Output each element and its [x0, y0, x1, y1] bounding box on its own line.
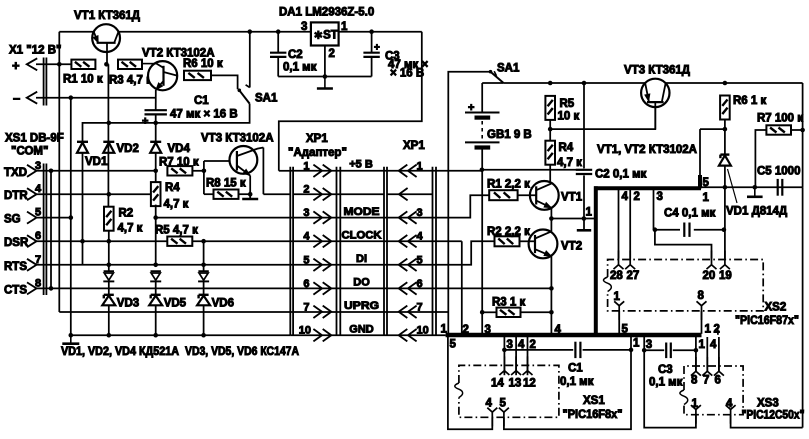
connector X1 label: [9, 45, 61, 57]
svg-text:4: 4: [303, 231, 310, 243]
wire RTS link up: [82, 241, 84, 265]
wire gnd bottom rail: [71, 334, 290, 336]
wire R3 right: [521, 310, 554, 315]
svg-text:C3: C3: [658, 364, 673, 376]
svg-text:20: 20: [703, 270, 716, 282]
node VD rail C1: [153, 121, 158, 126]
XP1 right pin 4: [399, 231, 424, 248]
wire VD6 column bottom: [203, 305, 205, 335]
X1 plus terminal: [12, 58, 71, 73]
DB9 pin 4 DTR: [4, 183, 42, 202]
XS1 pin 13: [509, 356, 522, 389]
node VD rail VD2: [107, 121, 112, 126]
svg-text:3: 3: [301, 21, 307, 33]
svg-text:XS3: XS3: [757, 398, 779, 410]
svg-text:6: 6: [715, 375, 721, 387]
svg-text:8: 8: [691, 375, 698, 387]
wire +12V top rail: [59, 31, 311, 33]
svg-text:GB1 9 В: GB1 9 В: [487, 129, 532, 141]
svg-text:1: 1: [586, 207, 593, 219]
node R5 VD6: [201, 239, 206, 244]
svg-text:R7 10 к: R7 10 к: [159, 157, 199, 169]
wire VD5 column bottom: [155, 305, 157, 335]
ground DA1: [317, 77, 333, 89]
wire row4 to bus2: [436, 241, 469, 336]
svg-text:4,7 к: 4,7 к: [557, 157, 582, 169]
svg-text:47 мк × 16 В: 47 мк × 16 В: [170, 109, 238, 121]
svg-text:R6 1 к: R6 1 к: [733, 95, 766, 107]
XP1 right pin 6: [399, 278, 423, 295]
svg-text:3: 3: [657, 191, 663, 203]
svg-text:VT1 КТ361Д: VT1 КТ361Д: [74, 10, 140, 22]
svg-text:С2 0,1 мк: С2 0,1 мк: [595, 169, 647, 181]
svg-text:28: 28: [610, 270, 623, 282]
wire SA1 drop from rail: [246, 32, 250, 88]
svg-text:7: 7: [417, 301, 423, 313]
svg-text:27: 27: [627, 270, 640, 282]
svg-text:–: –: [13, 91, 20, 106]
wire pin27 from bus: [630, 190, 640, 259]
XS3 pin 8: [691, 357, 701, 387]
transistor VT2: [142, 61, 177, 110]
svg-text:RTS: RTS: [4, 261, 27, 273]
wire +12V rail right of DA1: [339, 31, 422, 33]
svg-text:7: 7: [303, 301, 309, 313]
node top rail C3 tap: [369, 29, 374, 34]
resistor R3 right: [492, 297, 525, 318]
wire R3 to VT2 base: [142, 63, 150, 65]
svg-text:R7 100 к: R7 100 к: [757, 113, 803, 125]
bus upper thick: [594, 186, 701, 190]
wire XS1 frame right: [504, 337, 631, 430]
svg-text:XP1: XP1: [403, 140, 425, 152]
node RTS VD5: [153, 263, 158, 268]
XS1 DB9 bracket: [44, 164, 47, 296]
svg-text:VD1: VD1: [85, 156, 108, 168]
svg-text:R8 15 к: R8 15 к: [206, 178, 246, 190]
wire VD2 column: [107, 64, 109, 206]
wire C1 to VD rail: [155, 115, 157, 142]
node RTS VD6: [201, 263, 206, 268]
capacitor C1 left: [142, 95, 238, 128]
svg-text:× 16 В: × 16 В: [390, 68, 424, 80]
wire XP1 row1 span: [279, 170, 436, 172]
wire R7 right: [791, 128, 805, 133]
battery GB1: [465, 83, 503, 170]
svg-text:5: 5: [417, 254, 423, 266]
svg-text:R3 1 к: R3 1 к: [492, 297, 525, 309]
svg-text:4: 4: [417, 231, 424, 243]
XS2 pin 27: [625, 251, 639, 283]
wire SG row: [37, 217, 71, 219]
XP1 left socket lines: [337, 167, 341, 336]
wire R4 to SG seg: [155, 205, 157, 265]
svg-text:X1 "12 В": X1 "12 В": [9, 45, 61, 57]
capacitor C2 right: [576, 81, 647, 229]
wire R4 to VT1 collector: [550, 165, 551, 184]
wire pin20 path: [655, 230, 712, 259]
node VD6 gnd rail: [201, 333, 206, 338]
XP1 right pin 1: [399, 160, 423, 177]
svg-text:0,1 мк: 0,1 мк: [283, 62, 317, 74]
svg-text:+: +: [142, 116, 148, 128]
wire C4 link: [653, 227, 727, 232]
svg-text:4: 4: [622, 191, 629, 203]
wire DSR to XP1: [192, 240, 436, 242]
svg-text:R4: R4: [165, 182, 180, 194]
switch SA1 left: [238, 89, 278, 105]
svg-text:4,7 к: 4,7 к: [164, 199, 189, 211]
wire VD5 column mid: [155, 282, 157, 295]
node top rail C2 tap: [276, 29, 281, 34]
resistor R7 left: [159, 157, 199, 176]
svg-text:XS1: XS1: [583, 395, 605, 407]
XP1 right pin 5: [399, 254, 423, 271]
svg-text:SA1: SA1: [255, 93, 278, 105]
zener VD3: [102, 295, 139, 310]
XP1 left pin 2: [303, 184, 331, 201]
socket XS2 labels: [735, 302, 799, 328]
capacitor C2 reg: [270, 32, 317, 77]
svg-text:C1: C1: [568, 363, 583, 375]
ground VT3 left: [242, 191, 258, 199]
XP1 right pin 3: [399, 207, 423, 224]
node line1 gnd: [753, 185, 758, 190]
wire emitter node to bus: [551, 207, 595, 221]
capacitor C1 pic: [502, 342, 633, 388]
svg-text:5: 5: [450, 339, 457, 351]
svg-text:1: 1: [699, 339, 706, 351]
wire VD6 column top: [203, 241, 205, 271]
wire row1 to battery: [436, 168, 484, 173]
resistor R6 right: [720, 81, 766, 120]
wire battery to R3 node: [481, 170, 483, 334]
node VD2 DTR: [107, 192, 112, 197]
wire XS3 frame left: [644, 337, 696, 428]
node +12 spine plus row: [57, 62, 62, 67]
wire SG seg to XP1: [156, 217, 436, 219]
wire gnd spine: [70, 98, 72, 336]
svg-text:SG: SG: [4, 214, 21, 226]
svg-text:10 к: 10 к: [558, 111, 580, 123]
XP1 left pin 10: [299, 325, 332, 342]
wire XS1 pin12: [528, 337, 536, 376]
svg-text:13: 13: [509, 378, 522, 390]
svg-text:"PIC12C50x": "PIC12C50x": [742, 410, 805, 422]
XS1 pin 14: [491, 356, 509, 389]
svg-text:+: +: [374, 43, 380, 54]
capacitor C3 reg: [363, 32, 428, 80]
wire DA1 ground rail: [278, 76, 371, 78]
socket XS1 labels: [563, 395, 623, 421]
ground C5 left: [747, 187, 763, 197]
XS2 pin 28: [610, 251, 624, 283]
XP1 left plug lines: [290, 167, 293, 335]
svg-text:VD4: VD4: [168, 143, 191, 155]
label XS3 wire3: [646, 339, 652, 351]
svg-text:6: 6: [303, 278, 309, 290]
node SG gnd spine: [69, 215, 74, 220]
clamp diode upper VD5: [150, 271, 161, 281]
DB9 pin 5 SG: [4, 207, 41, 226]
XS2 pin 19: [719, 251, 732, 283]
svg-text:1: 1: [633, 338, 640, 350]
node RTS VD3: [107, 263, 112, 268]
node R4 SG: [153, 215, 158, 220]
wire DTR row: [37, 193, 152, 195]
svg-text:7: 7: [703, 375, 709, 387]
XP1 right socket lines: [433, 167, 437, 336]
node R2 DSR: [107, 239, 112, 244]
wire R8 to VT3 emitter: [239, 192, 253, 197]
node TXD VD4: [153, 169, 158, 174]
wire DSR row: [37, 240, 168, 242]
clamp diode upper VD6: [198, 271, 209, 281]
wire R7 left: [755, 130, 766, 187]
svg-text:"PIC16F8x": "PIC16F8x": [563, 409, 623, 421]
svg-text:R6 10 к: R6 10 к: [183, 58, 223, 70]
label bus wire3: [485, 324, 491, 336]
XS3 pin 6: [714, 357, 724, 387]
XS1 pin 12: [523, 356, 536, 389]
svg-text:+5 В: +5 В: [349, 159, 373, 171]
wire +5V feed to XP1: [279, 32, 422, 171]
wire VD6 column mid: [203, 282, 205, 295]
wire XP1 row3 span: [290, 217, 436, 219]
svg-text:VT2: VT2: [561, 241, 582, 253]
node VT1 VT2 junction: [549, 216, 554, 221]
switch SA1 right: [489, 63, 520, 83]
wire right rail down: [802, 83, 804, 187]
svg-text:DA1 LM2936Z-5.0: DA1 LM2936Z-5.0: [279, 7, 374, 19]
socket XS1 outline: [455, 365, 559, 417]
XP1 left pin 7: [303, 301, 331, 318]
DB9 pin 7 RTS: [4, 254, 41, 273]
XP1 left pin 3: [303, 207, 331, 224]
XP1 right pin2 stub: [387, 188, 433, 200]
resistor R4 right: [545, 141, 582, 169]
svg-text:6: 6: [417, 278, 423, 290]
svg-text:"PIC16F87x": "PIC16F87x": [735, 315, 799, 327]
svg-text:VT1: VT1: [561, 192, 583, 204]
label XS1 wire1: [633, 338, 640, 350]
resistor R1 right: [487, 179, 530, 201]
svg-text:TXD: TXD: [4, 167, 27, 179]
XP1 right pin 7: [399, 301, 423, 318]
XP1 right pin 10: [399, 325, 429, 342]
wire XS3 frame right: [731, 415, 803, 428]
diode VD1: [77, 142, 108, 241]
svg-text:VD3, VD5, VD6 КС147А: VD3, VD5, VD6 КС147А: [185, 346, 299, 358]
X1 connector bracket: [44, 58, 47, 106]
svg-text:R5: R5: [560, 98, 575, 110]
transistor VT2 right: [520, 219, 558, 334]
svg-text:R4: R4: [559, 142, 574, 154]
svg-text:5: 5: [303, 254, 309, 266]
resistor R2 right: [487, 226, 530, 246]
battery GB1 label: [487, 129, 532, 141]
wire XS3 pin8: [696, 337, 706, 372]
socket XS3 labels: [742, 398, 805, 422]
svg-text:SA1: SA1: [497, 63, 520, 75]
svg-text:2: 2: [329, 48, 335, 60]
svg-text:VD2: VD2: [117, 143, 139, 155]
XP1 net name +5V: [349, 159, 373, 171]
svg-text:1: 1: [703, 192, 710, 204]
wire R6 bottom: [700, 119, 727, 155]
zener VD1 right: [719, 155, 787, 218]
diode VD2: [103, 142, 139, 155]
XS3 pin 1: [691, 398, 701, 424]
wire UPRG line: [59, 311, 448, 313]
label bus wire4: [555, 324, 562, 336]
transistor VT3 right: [641, 79, 669, 129]
XP1 right plug lines: [384, 167, 387, 336]
svg-text:R2 2,2 к: R2 2,2 к: [487, 226, 530, 238]
regulator DA1: [301, 21, 348, 60]
transistor VT3 left label: [201, 133, 274, 145]
DB9 pin 6 DSR: [4, 230, 41, 249]
wire XS1 pin14: [504, 337, 513, 376]
wire R7 to VT3 base: [192, 161, 237, 194]
XS1 pin 4: [486, 398, 498, 427]
wire row1 to C2: [482, 169, 584, 171]
resistor R5 left: [155, 225, 198, 246]
bus vertical thick: [594, 186, 598, 335]
wire XS1 pin13: [516, 337, 525, 376]
resistor R1: [63, 60, 103, 86]
svg-text:DO: DO: [353, 277, 370, 289]
XS3 pin 7: [702, 357, 712, 387]
resistor R5 right: [545, 81, 579, 123]
connector XP1 right label: [403, 140, 425, 152]
wire row5 jog to R2: [436, 241, 495, 264]
svg-text:1: 1: [705, 324, 712, 336]
XP1 net name GND: [349, 324, 374, 336]
node R5 R4 divider: [548, 120, 553, 141]
capacitor C5: [757, 166, 800, 196]
wire line1 right: [701, 186, 803, 188]
wire XS3 pin6: [718, 337, 720, 372]
wire divider to VT3 base: [550, 102, 655, 129]
XP1 left pin 5: [303, 254, 331, 271]
wire VD1 column: [723, 165, 728, 229]
resistor R3: [109, 60, 152, 87]
svg-text:∗ST: ∗ST: [314, 30, 338, 42]
svg-text:CTS: CTS: [4, 284, 27, 296]
node VT1 base R1 R3: [104, 62, 109, 67]
svg-text:XS1 DB-9F: XS1 DB-9F: [5, 133, 64, 145]
svg-text:2: 2: [714, 324, 720, 336]
regulator DA1 label: [279, 7, 374, 19]
bus lower thick: [446, 333, 702, 337]
transistor VT1 right label: [561, 192, 583, 204]
XP1 left pin 6: [303, 278, 331, 295]
wire XP1 row10 span: [290, 334, 445, 336]
node top rail to SA1 drop: [248, 29, 253, 34]
XS2 pin 20: [703, 251, 717, 283]
zener VD5: [149, 295, 186, 310]
wire VD3 column mid: [108, 282, 110, 295]
svg-text:+: +: [12, 58, 20, 73]
svg-text:VT1, VT2 КТ3102А: VT1, VT2 КТ3102А: [597, 144, 697, 156]
wire VPP line: [447, 120, 449, 335]
svg-text:"СОМ": "СОМ": [11, 146, 48, 158]
transistor VT2 label: [142, 48, 215, 60]
XS2 pin 1: [614, 291, 629, 336]
diode VD4: [150, 142, 190, 182]
XP1 net name DI: [356, 253, 367, 265]
node VD3 gnd rail: [107, 333, 112, 338]
node C2 emitter line: [583, 217, 585, 219]
XP1 net name CLOCK: [342, 230, 382, 242]
wire CTS row: [37, 287, 437, 289]
resistor R7 right: [757, 113, 803, 135]
svg-text:R1 10 к: R1 10 к: [63, 74, 103, 86]
svg-text:4: 4: [486, 398, 493, 410]
connector XP1 left label: [288, 133, 347, 159]
svg-text:C4 0,1 мк: C4 0,1 мк: [664, 208, 716, 220]
label bus start 5: [450, 339, 457, 351]
svg-text:3: 3: [303, 207, 309, 219]
wire DA1 pin2: [324, 46, 326, 77]
ground C2 right: [577, 229, 591, 232]
svg-text:XS2: XS2: [765, 302, 787, 314]
wire pin19 from VD1 col: [724, 230, 726, 259]
svg-text:CLOCK: CLOCK: [342, 230, 382, 242]
node minus row gnd spine: [69, 95, 74, 100]
svg-text:VD3: VD3: [117, 298, 139, 310]
svg-text:MODE: MODE: [344, 206, 380, 218]
svg-text:1: 1: [341, 21, 348, 33]
XP1 left pin 1: [303, 160, 331, 177]
X1 minus terminal: [13, 91, 156, 106]
wire pin28 from bus: [619, 190, 629, 259]
wire +12V spine: [58, 32, 60, 312]
label bus1 line1: [703, 192, 710, 204]
DB9 pin 8 CTS: [4, 277, 41, 296]
capacitor C3 pic: [642, 343, 698, 389]
svg-text:R2: R2: [119, 208, 134, 220]
wire row6 to VT2 emitter: [436, 286, 554, 291]
wire VD3 column bottom: [108, 305, 110, 335]
svg-text:VT3 КТ3102А: VT3 КТ3102А: [201, 133, 274, 145]
transistor VT1 right: [518, 168, 559, 219]
wire SA1 to VD rail: [83, 104, 250, 142]
svg-text:VD5: VD5: [164, 298, 187, 310]
node RTS link DSR: [80, 239, 85, 244]
wire RTS row cont: [83, 264, 437, 266]
transistor VT2 right label: [561, 241, 582, 253]
labels XS2 pin8 nets: [705, 324, 720, 336]
DB9 pin 3 TXD: [4, 160, 41, 179]
node DA1 gnd: [323, 74, 328, 79]
wire XP1 row2 span: [293, 193, 399, 195]
transistor VT1: [92, 24, 120, 64]
svg-text:12: 12: [523, 378, 536, 390]
svg-text:DSR: DSR: [4, 237, 29, 249]
XS3 pin 4: [726, 398, 736, 424]
XP1 net name DO: [353, 277, 370, 289]
resistor R2 left: [104, 207, 143, 235]
XS2 pin 8: [697, 290, 707, 334]
resistor R8: [206, 178, 246, 199]
wire +9V rail: [503, 82, 802, 84]
transistors right type note: [597, 144, 697, 156]
XP1 net name UPRG: [344, 300, 379, 312]
transistor VT3 left: [230, 146, 264, 199]
svg-text:2: 2: [634, 191, 640, 203]
